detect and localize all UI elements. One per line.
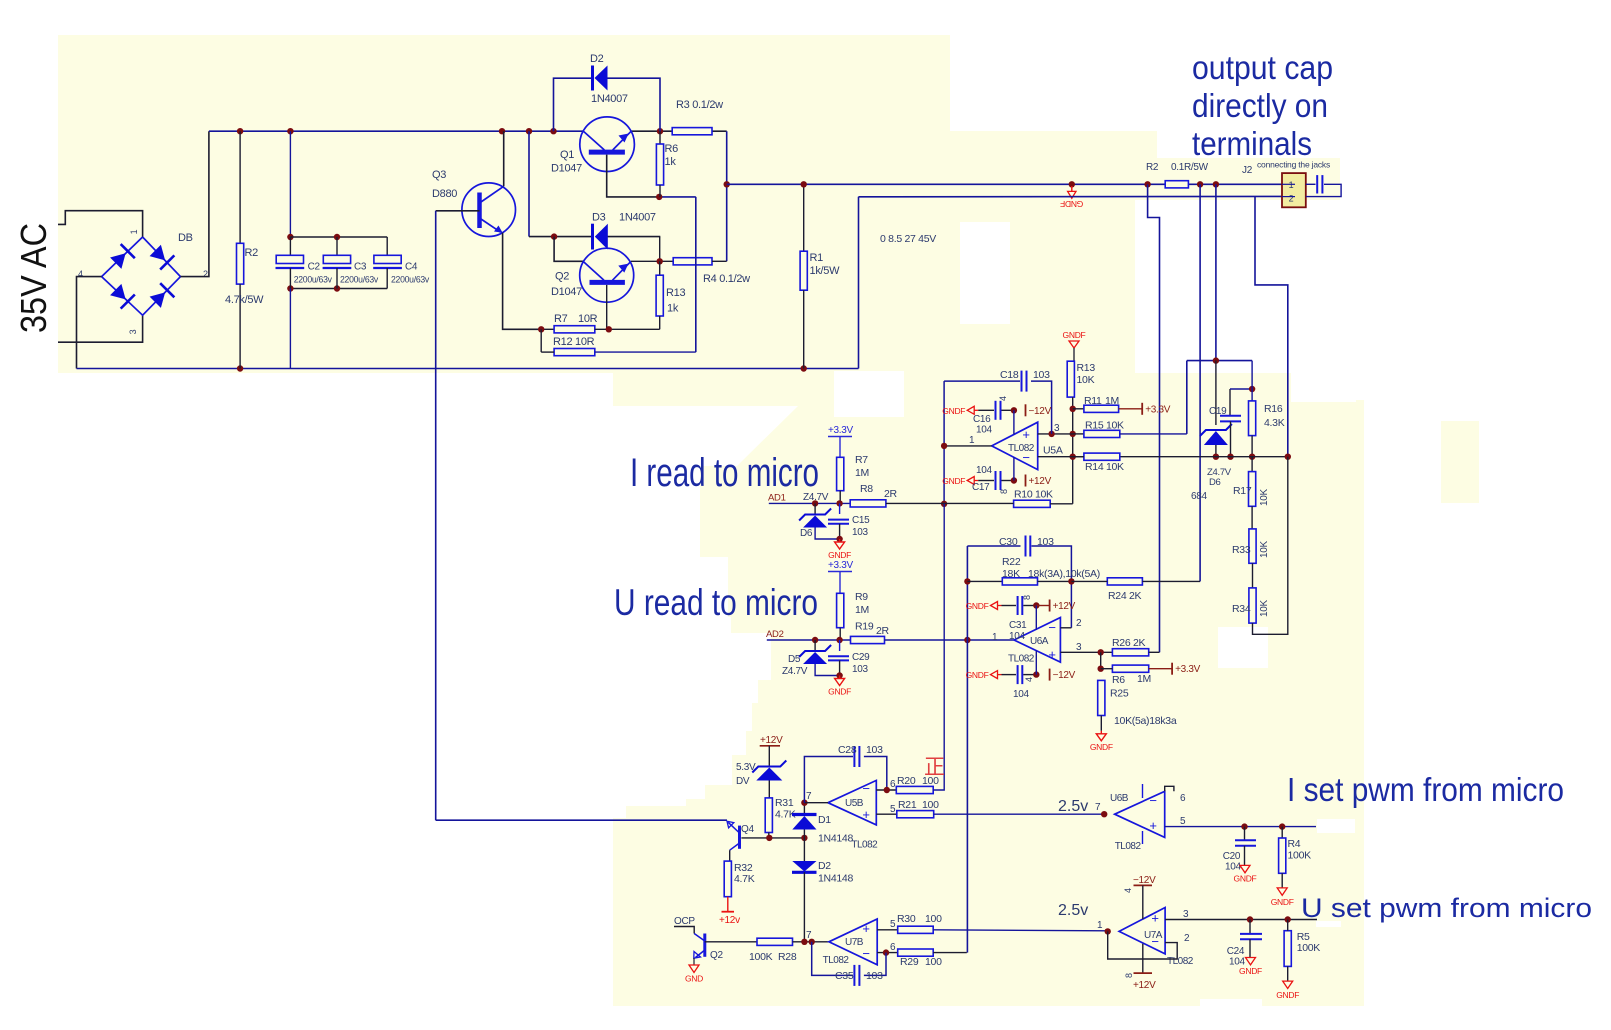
resistor R25	[1098, 680, 1105, 715]
svg-text:R9: R9	[855, 591, 868, 603]
svg-text:U set pwm from micro: U set pwm from micro	[1301, 893, 1592, 923]
svg-text:R16: R16	[1264, 403, 1283, 415]
resistor R24 2K	[1107, 578, 1142, 585]
output capacitor at terminals	[1306, 183, 1316, 185]
wire R3 right down to R4	[726, 131, 728, 261]
node R11 row	[1070, 406, 1076, 412]
U5B pin6 wire R20	[876, 789, 896, 791]
svg-text:104: 104	[1013, 689, 1030, 700]
C35 feedback loop	[812, 942, 853, 976]
svg-text:4: 4	[78, 269, 83, 279]
node C29 bottom	[836, 672, 842, 678]
svg-text:TL082: TL082	[1115, 841, 1142, 852]
svg-text:R13: R13	[666, 287, 685, 299]
svg-text:R14 10K: R14 10K	[1085, 461, 1124, 473]
op-amp U5A TL082	[992, 422, 1038, 469]
node U6B pin7	[1101, 811, 1107, 817]
capacitor C29 103	[839, 640, 841, 651]
+12v flag below R32	[727, 897, 729, 912]
svg-text:OCP: OCP	[674, 916, 695, 927]
node bus B R22 row	[964, 578, 970, 584]
wire bridge pin2 to top rail	[181, 131, 209, 276]
svg-text:1M: 1M	[855, 604, 869, 616]
svg-text:+12V: +12V	[1133, 980, 1156, 991]
wire Q4 long feed	[436, 819, 727, 821]
svg-text:GNDF: GNDF	[1090, 742, 1113, 752]
svg-text:R20: R20	[897, 775, 916, 787]
svg-text:104: 104	[1009, 631, 1026, 642]
U5A pin3 wire	[1038, 433, 1073, 435]
svg-text:+3.3V: +3.3V	[1175, 664, 1201, 675]
svg-text:TL082: TL082	[851, 840, 878, 851]
svg-text:I read to micro: I read to micro	[630, 451, 819, 495]
svg-text:+: +	[862, 807, 869, 822]
node R28 D2	[801, 939, 807, 945]
svg-text:R17: R17	[1233, 485, 1252, 497]
node top rail R6	[657, 128, 663, 134]
svg-text:Q4: Q4	[741, 824, 754, 835]
svg-text:7: 7	[806, 930, 812, 941]
svg-text:D6: D6	[800, 528, 813, 539]
node C20	[1241, 823, 1247, 829]
node R7 left	[538, 326, 544, 332]
GNDF below C29	[839, 676, 841, 679]
svg-text:−12V: −12V	[1053, 670, 1076, 681]
svg-text:R10 10K: R10 10K	[1014, 489, 1053, 501]
svg-text:10K(5a)18k3a: 10K(5a)18k3a	[1114, 715, 1177, 727]
node R28 C35	[809, 939, 815, 945]
svg-text:I set pwm from micro: I set pwm from micro	[1287, 771, 1564, 808]
svg-text:D880: D880	[432, 188, 457, 200]
GND below Q2	[693, 958, 695, 965]
svg-text:5: 5	[1180, 816, 1186, 827]
node bottom rail R1	[801, 365, 807, 371]
wire supply to U5A top	[1013, 410, 1015, 434]
svg-text:R11: R11	[1084, 395, 1102, 407]
svg-text:C20: C20	[1223, 851, 1241, 862]
capacitor C15 103	[839, 503, 841, 514]
U6B pin6 stub	[1165, 786, 1174, 791]
wire AC input bottom	[58, 315, 143, 342]
U6B pin5 wire	[1165, 826, 1316, 828]
capacitor C19	[1229, 389, 1231, 416]
Q4 base row wire	[741, 837, 804, 839]
svg-text:100K: 100K	[1288, 850, 1312, 862]
svg-text:R4 0.1/2w: R4 0.1/2w	[703, 273, 750, 285]
svg-text:2R: 2R	[876, 625, 890, 637]
node R7 bottom	[836, 500, 842, 506]
node C32 supply	[1033, 671, 1039, 677]
svg-text:4.7k/5W: 4.7k/5W	[225, 294, 264, 306]
C30 feedback loop	[967, 545, 1020, 547]
svg-text:R12 10R: R12 10R	[553, 336, 595, 348]
svg-text:104: 104	[1225, 862, 1242, 873]
svg-text:J2: J2	[1242, 165, 1253, 176]
resistor R3 0.1/2w	[672, 128, 712, 135]
U6A pin2 wire	[1060, 627, 1071, 629]
capacitor C18 103	[1021, 371, 1023, 392]
svg-text:−12V: −12V	[1029, 406, 1052, 417]
node sense rail	[1213, 357, 1219, 363]
svg-text:4: 4	[998, 396, 1008, 401]
capacitor C3 2200u/63v	[336, 237, 338, 255]
capacitor C24 104	[1249, 920, 1251, 934]
node R8 R10 row	[941, 501, 947, 507]
svg-text:6: 6	[890, 942, 896, 953]
diode D2	[591, 66, 594, 91]
svg-text:D6: D6	[1209, 477, 1221, 488]
svg-text:Z4.7V: Z4.7V	[782, 666, 808, 677]
wire C19 top	[1230, 388, 1252, 390]
svg-text:R2: R2	[1146, 162, 1159, 173]
-12V flag U6A	[1049, 669, 1051, 681]
node top rail R2	[237, 128, 243, 134]
wire R34 bottom to riser	[1253, 457, 1288, 635]
bridge diode D top-right	[150, 245, 166, 261]
svg-text:104: 104	[976, 465, 993, 476]
svg-text:GNDF: GNDF	[942, 406, 965, 416]
svg-text:C29: C29	[852, 652, 870, 663]
svg-text:C30: C30	[999, 536, 1018, 548]
svg-text:10R: 10R	[578, 313, 598, 325]
resistor R32 4.7K	[724, 861, 731, 897]
wire Q3 base long vertical	[435, 211, 437, 820]
svg-text:1N4007: 1N4007	[591, 93, 628, 105]
node top rail D3 column	[526, 128, 532, 134]
svg-text:Q2: Q2	[555, 271, 569, 283]
svg-text:8: 8	[1022, 595, 1032, 600]
wire J2 vertical x1147	[1148, 184, 1160, 652]
R14 row right nodes	[1213, 454, 1219, 460]
svg-text:R1: R1	[810, 252, 824, 264]
node top rail C2 column	[287, 128, 293, 134]
wire supply to U5A bottom	[1013, 457, 1015, 480]
node output rail start	[724, 181, 730, 187]
node R22 R24 pin2	[1068, 578, 1074, 584]
wire Q3 collector to rail	[503, 131, 505, 186]
svg-text:R34: R34	[1232, 603, 1251, 615]
resistor R2 4.7k/5W	[239, 131, 241, 243]
svg-text:R26 2K: R26 2K	[1112, 637, 1146, 649]
+12V flag U6A	[1049, 600, 1051, 612]
node D6 zener	[812, 500, 818, 506]
svg-text:U7B: U7B	[845, 937, 864, 948]
op-amp U7B TL082	[829, 919, 877, 965]
svg-text:1: 1	[129, 229, 139, 234]
transistor Q4	[738, 826, 741, 849]
svg-text:U6A: U6A	[1030, 636, 1049, 647]
svg-text:103: 103	[866, 970, 883, 982]
node J2 branch	[1213, 181, 1219, 187]
svg-text:+12V: +12V	[760, 735, 783, 746]
node Q1 R6 bottom	[656, 194, 662, 200]
U7B pin5 wire R30	[877, 929, 898, 931]
svg-text:18K: 18K	[1002, 568, 1020, 580]
wire Q1 emitter down to R6 bottom	[607, 155, 660, 197]
svg-text:DV: DV	[736, 776, 750, 787]
svg-text:7: 7	[1095, 802, 1101, 813]
svg-text:103: 103	[1033, 369, 1050, 381]
svg-text:Q3: Q3	[432, 169, 446, 181]
wire R6 bottom to right	[659, 196, 696, 198]
svg-text:R19: R19	[855, 621, 874, 633]
C28 feedback loop	[804, 757, 853, 803]
svg-text:100K: 100K	[749, 951, 773, 963]
U read row wire	[767, 639, 851, 641]
U5B pin5 wire R21	[876, 813, 897, 815]
svg-text:2200u/63v: 2200u/63v	[340, 275, 378, 286]
resistor R4 0.1/2w	[673, 258, 712, 265]
wire R15 riser	[1186, 361, 1188, 434]
U7A pin2 loop	[1108, 931, 1178, 959]
resistor R34 10K	[1252, 563, 1254, 588]
svg-text:100K: 100K	[1297, 942, 1321, 954]
svg-text:TL082: TL082	[1008, 654, 1035, 665]
Q2 base wire	[705, 941, 757, 943]
svg-text:TL082: TL082	[1167, 956, 1194, 967]
svg-text:+3.3V: +3.3V	[828, 425, 854, 436]
diode D2 1N4007 loop	[554, 78, 593, 131]
svg-text:C24: C24	[1227, 946, 1245, 957]
wire supply to U6A top	[1035, 606, 1037, 630]
svg-text:1k: 1k	[665, 156, 677, 168]
resistor R2 0.1R/5W output	[1165, 181, 1188, 188]
svg-text:3: 3	[128, 329, 138, 334]
svg-text:+12v: +12v	[719, 915, 740, 926]
resistor R19 2R	[851, 636, 885, 643]
svg-text:5: 5	[890, 804, 896, 815]
U5A pin2 wire	[1038, 456, 1084, 458]
svg-text:−: −	[1151, 934, 1158, 949]
svg-text:R30: R30	[897, 913, 916, 925]
capacitor C30 103	[1025, 536, 1027, 557]
svg-text:10K: 10K	[1259, 540, 1270, 558]
resistor R8 2R	[850, 500, 886, 507]
resistor R10 10K	[1013, 503, 1015, 505]
wire J2 vertical x1200	[1199, 184, 1201, 581]
svg-text:R33: R33	[1232, 544, 1251, 556]
svg-text:R15 10K: R15 10K	[1085, 420, 1124, 432]
svg-text:C28: C28	[838, 744, 857, 756]
svg-text:R7: R7	[855, 454, 868, 466]
svg-text:R7: R7	[554, 313, 568, 325]
svg-text:10K: 10K	[1077, 374, 1095, 386]
svg-text:1: 1	[1289, 180, 1294, 190]
svg-text:directly on: directly on	[1192, 87, 1328, 124]
node top rail Q3 collector	[499, 128, 505, 134]
node R26 R25	[1098, 649, 1104, 655]
svg-text:GNDF: GNDF	[942, 476, 965, 486]
svg-text:8: 8	[1124, 973, 1134, 978]
bridge diode D bottom-left	[110, 284, 126, 300]
svg-text:2R: 2R	[884, 488, 898, 500]
svg-text:−: −	[1022, 450, 1029, 465]
svg-text:D5: D5	[788, 654, 801, 665]
top rail	[209, 130, 584, 132]
svg-text:100: 100	[922, 799, 939, 811]
svg-text:1N4148: 1N4148	[818, 873, 853, 885]
lower output rail	[858, 197, 860, 369]
svg-text:5: 5	[890, 919, 896, 930]
wire to Q2 collector	[554, 237, 583, 262]
svg-text:D2: D2	[590, 53, 604, 65]
transistor Q2 D1047	[580, 248, 634, 302]
svg-text:2: 2	[1289, 194, 1294, 204]
svg-text:1k/5W: 1k/5W	[810, 265, 841, 277]
resistor R7 10R row	[541, 328, 554, 330]
resistor R17 10K	[1251, 457, 1253, 472]
svg-text:+: +	[1048, 647, 1055, 662]
svg-text:C35: C35	[835, 970, 854, 982]
R22 row wire	[967, 580, 1002, 582]
+12V flag U7A	[1142, 944, 1144, 973]
node D5 zener	[812, 637, 818, 643]
resistor R13 1k	[659, 261, 661, 275]
svg-text:C15: C15	[852, 515, 870, 526]
svg-text:C31: C31	[1009, 620, 1027, 631]
svg-text:C4: C4	[405, 262, 418, 273]
svg-text:U5A: U5A	[1043, 445, 1063, 457]
resistor R20 100	[896, 786, 933, 793]
wire Q2 emitter down	[606, 285, 608, 329]
svg-text:18k(3A),10k(5A): 18k(3A),10k(5A)	[1028, 568, 1100, 580]
Q4 collector wire	[729, 850, 731, 861]
svg-text:103: 103	[852, 527, 869, 538]
node C24	[1247, 916, 1253, 922]
svg-text:+3.3V: +3.3V	[1145, 404, 1171, 415]
svg-text:2: 2	[1184, 933, 1190, 944]
node top rail D2 left	[550, 128, 556, 134]
svg-text:1M: 1M	[855, 467, 869, 479]
svg-text:+12V: +12V	[1053, 601, 1076, 612]
resistor R15 10K	[1073, 433, 1084, 435]
svg-text:TL082: TL082	[823, 955, 850, 966]
GNDF inverted flag on output rail	[1071, 186, 1073, 191]
svg-text:正: 正	[924, 756, 945, 779]
svg-text:3: 3	[1183, 909, 1189, 920]
wire supply to U6A bottom	[1035, 651, 1037, 675]
wire R13 bottom vertical bus	[1072, 397, 1074, 504]
U6A pin3 wire	[1060, 651, 1112, 653]
svg-text:R4: R4	[1288, 838, 1301, 850]
U5A pin1 wire	[944, 445, 992, 447]
svg-text:D1047: D1047	[551, 163, 582, 175]
capacitor C20 104	[1244, 827, 1246, 841]
GNDF below R25	[1100, 731, 1102, 734]
node U7A pin1	[1105, 928, 1111, 934]
bridge diode D bottom-right	[150, 292, 166, 308]
resistor R16 4.3K	[1251, 361, 1253, 401]
U7B pin6 wire R29	[877, 952, 898, 954]
resistor R6 1k	[659, 131, 661, 144]
svg-text:4.3K: 4.3K	[1264, 417, 1285, 429]
svg-text:GNDF: GNDF	[828, 687, 851, 697]
bottom rail	[77, 368, 859, 370]
zener D6 684	[1215, 361, 1217, 425]
resistor R4 100K	[1281, 827, 1283, 838]
resistor R33 10K	[1251, 506, 1253, 529]
diode D3	[591, 224, 594, 250]
svg-text:103: 103	[1037, 536, 1054, 548]
svg-text:1: 1	[992, 632, 998, 643]
connector J2	[1282, 173, 1306, 207]
diode D2 1N4148 lower	[803, 838, 805, 861]
svg-text:U5B: U5B	[845, 798, 864, 809]
resistor R14 10K	[1073, 456, 1084, 458]
svg-text:6: 6	[1180, 793, 1186, 804]
wire D3 right to R4 row	[659, 237, 661, 262]
svg-text:6: 6	[890, 779, 896, 790]
node R4 left R13 top	[657, 258, 663, 264]
svg-text:3: 3	[1076, 642, 1082, 653]
svg-text:104: 104	[976, 425, 993, 436]
svg-text:100: 100	[925, 956, 942, 968]
+3.3V flag R11	[1141, 403, 1143, 415]
svg-text:Q1: Q1	[560, 149, 574, 161]
resistor R9 1M	[837, 593, 844, 627]
resistor R13 10K vertical	[1067, 361, 1074, 397]
svg-text:2: 2	[203, 269, 208, 279]
svg-text:R28: R28	[778, 951, 797, 963]
svg-text:103: 103	[852, 664, 869, 675]
svg-text:R24 2K: R24 2K	[1108, 590, 1142, 602]
node R7 right Q2 emitter	[606, 326, 612, 332]
wire capacitor bank bottom rail	[290, 288, 387, 290]
resistor R1 1k/5W	[803, 184, 805, 251]
svg-text:GNDF: GNDF	[1060, 199, 1083, 209]
svg-text:GNDF: GNDF	[828, 550, 851, 560]
zener D6 AD1	[814, 503, 816, 514]
resistor R11 1M	[1073, 408, 1084, 410]
node C31 supply	[1033, 602, 1039, 608]
svg-text:AD1: AD1	[768, 493, 786, 504]
svg-text:1N4148: 1N4148	[818, 833, 853, 845]
resistor R12 10R row	[540, 329, 542, 352]
svg-text:+: +	[1022, 427, 1029, 442]
bridge diode D top-left	[110, 253, 126, 269]
op-amp U6A TL082	[1014, 618, 1060, 663]
resistor R5 100K	[1284, 931, 1291, 967]
zener D5	[814, 640, 816, 651]
svg-text:AD2: AD2	[766, 629, 784, 640]
svg-text:1: 1	[1097, 920, 1103, 931]
svg-text:C19: C19	[1209, 406, 1227, 417]
node R15 row	[1070, 431, 1076, 437]
node R19 row vertical B	[964, 637, 970, 643]
resistor R30 100	[898, 926, 934, 933]
svg-text:+: +	[1151, 911, 1158, 926]
resistor R7 1M	[837, 457, 844, 490]
svg-text:U read to micro: U read to micro	[614, 582, 818, 623]
node R14 row	[1070, 454, 1076, 460]
GNDF below C24	[1246, 958, 1256, 965]
svg-text:R25: R25	[1110, 688, 1129, 700]
-12V flag U5A	[1025, 404, 1027, 416]
capacitor C32 104	[991, 671, 998, 679]
R14 row wire right	[1120, 456, 1288, 458]
resistor R22 18K	[1002, 578, 1037, 585]
node U5A pin1	[941, 443, 947, 449]
svg-text:R6: R6	[1112, 674, 1125, 686]
output rail	[727, 183, 1165, 185]
svg-text:GNDF: GNDF	[966, 670, 989, 680]
svg-text:4.7K: 4.7K	[734, 873, 755, 885]
svg-text:D2: D2	[818, 860, 831, 872]
OCP wire	[674, 927, 694, 934]
op-amp U5B TL082	[828, 780, 876, 825]
wire bridge pin4 to bottom rail	[77, 277, 102, 369]
capacitor C35 103	[853, 965, 855, 986]
